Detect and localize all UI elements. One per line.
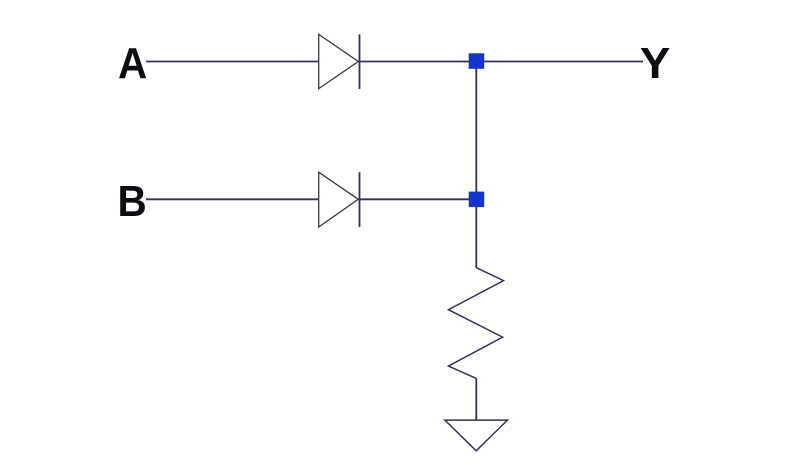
diode D2	[319, 172, 360, 227]
wire A to diode D1	[146, 61, 318, 63]
diode D1	[319, 34, 360, 89]
junction node 1	[469, 53, 485, 69]
svg-text:A: A	[118, 39, 147, 88]
resistor R1	[448, 268, 503, 379]
junction node 2	[469, 192, 485, 208]
wire node 1 to Y	[483, 61, 643, 63]
wire D2 to node 2	[360, 198, 471, 200]
vertical wire node 1 to node 2 to resistor R1	[475, 62, 477, 268]
wire resistor R1 to ground	[475, 378, 477, 420]
wire B to diode D2	[146, 198, 318, 200]
svg-text:Y: Y	[640, 40, 671, 88]
wire D1 to node 1	[360, 61, 471, 63]
svg-text:B: B	[118, 177, 147, 226]
ground	[445, 420, 508, 451]
